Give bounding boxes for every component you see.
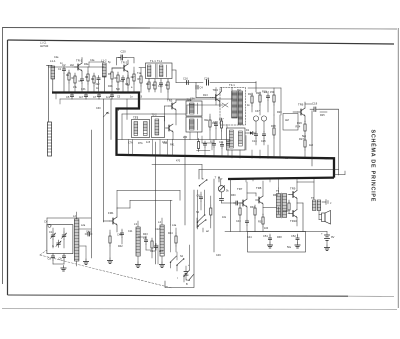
- ground G3: [324, 245, 329, 251]
- capacitor C52: [291, 234, 299, 242]
- resistor R34: [262, 214, 264, 232]
- capacitor C2: [62, 63, 66, 93]
- ground G5: [61, 266, 66, 272]
- transformer T2-2: [152, 117, 165, 138]
- switch S3: [183, 270, 189, 282]
- switch S2: [176, 258, 184, 271]
- scan page bottom edge: [2, 309, 397, 310]
- resistor R9: [140, 68, 142, 93]
- resistor R27: [299, 137, 306, 158]
- svg-text:R42: R42: [118, 245, 123, 248]
- svg-text:T1-2: T1-2: [157, 60, 163, 63]
- svg-text:L4a: L4a: [172, 224, 177, 227]
- scan page left edge: [2, 28, 4, 285]
- wire det link: [245, 115, 280, 157]
- svg-text:R44: R44: [168, 232, 173, 235]
- dashed chassis boundary: [40, 255, 172, 288]
- capacitor C15: [261, 116, 266, 145]
- svg-text:300M: 300M: [325, 157, 331, 160]
- resistor R12: [167, 79, 169, 99]
- svg-text:R12: R12: [165, 84, 170, 87]
- transistor TR-1: [75, 58, 83, 77]
- capacitor C42: [117, 229, 124, 244]
- wire RF collector line: [73, 66, 104, 68]
- capacitor Cb: [59, 254, 66, 265]
- switch S1a: [199, 178, 208, 187]
- variable capacitor C1a: [50, 228, 55, 248]
- svg-text:T3-2: T3-2: [187, 99, 193, 102]
- svg-text:R41: R41: [170, 144, 175, 147]
- svg-text:C2a: C2a: [54, 56, 59, 59]
- transistor Q-AF2: [256, 181, 264, 215]
- svg-text:R38: R38: [277, 236, 282, 239]
- frame left border: [7, 40, 9, 295]
- diode D1: [248, 131, 254, 134]
- resistor R36: [283, 200, 290, 213]
- capacitor C16: [183, 77, 188, 85]
- dashed chassis boundary left: [40, 250, 47, 255]
- battery B1 9V: [321, 232, 335, 246]
- svg-text:R49: R49: [226, 140, 231, 143]
- wire battery box: [165, 190, 194, 288]
- svg-text:AM 520: AM 520: [40, 45, 49, 48]
- switch S1b: [197, 218, 207, 232]
- resistor R33: [254, 205, 256, 232]
- transformer T4: [227, 128, 246, 150]
- svg-text:TR5: TR5: [167, 99, 173, 103]
- wire IF row top: [122, 113, 186, 115]
- variable capacitor C1b: [61, 228, 66, 248]
- capacitor C9: [121, 76, 124, 93]
- svg-text:T1-1: T1-1: [150, 59, 156, 63]
- transformer T5 driver: [263, 188, 287, 218]
- wire switch rail: [158, 225, 177, 264]
- transformer T3: [186, 101, 202, 116]
- resistor R44: [175, 228, 177, 252]
- svg-text:TR9: TR9: [290, 187, 296, 191]
- svg-text:R7A: R7A: [138, 142, 143, 145]
- resistor R4: [93, 73, 95, 93]
- svg-text:TR6: TR6: [298, 103, 304, 107]
- wire audio bottom rail: [225, 231, 327, 233]
- svg-text:C40: C40: [212, 122, 217, 125]
- svg-text:5k6: 5k6: [116, 88, 121, 91]
- transistor TR-3: [211, 88, 222, 108]
- wire top link: [176, 83, 256, 98]
- wire osc top: [117, 200, 172, 225]
- svg-text:L1-1: L1-1: [50, 59, 56, 63]
- transistor TR5b: [166, 124, 174, 140]
- ground G8: [135, 262, 140, 268]
- svg-text:FM1: FM1: [108, 211, 114, 215]
- resistor R43: [151, 238, 153, 258]
- wire mixer vertical: [248, 82, 281, 116]
- capacitor C24: [204, 77, 210, 86]
- box feedback: [248, 232, 306, 253]
- svg-text:C7: C7: [93, 95, 97, 99]
- coil L1-1: [50, 59, 56, 93]
- svg-text:SCHÉMA DE PRINCIPE: SCHÉMA DE PRINCIPE: [370, 130, 378, 203]
- svg-text:C49: C49: [216, 254, 221, 257]
- wire audio mid: [297, 203, 303, 232]
- svg-text:C9: C9: [143, 236, 147, 240]
- svg-text:T: T: [215, 176, 217, 180]
- capacitor C4: [97, 76, 100, 93]
- svg-text:T2-1: T2-1: [133, 117, 139, 120]
- wire osc collector rail: [117, 191, 180, 209]
- wire TR-2 feedback loop: [117, 58, 135, 66]
- wire AGC row: [60, 98, 232, 100]
- svg-text:R13: R13: [203, 94, 208, 97]
- transistor Q-OUT1: [288, 182, 297, 203]
- label row IF bottom: [128, 140, 231, 147]
- frame bottom border: [8, 295, 349, 296]
- ground G7: [107, 258, 112, 264]
- speaker LS: [319, 211, 331, 225]
- resistor R22: [256, 91, 261, 115]
- wire tuning top: [47, 218, 91, 225]
- svg-text:C52: C52: [291, 234, 296, 238]
- svg-text:C4a: C4a: [90, 59, 95, 62]
- svg-text:AM: AM: [285, 119, 289, 122]
- extra hairline wires: [56, 62, 297, 188]
- svg-text:C51: C51: [263, 234, 268, 238]
- svg-text:S: S: [186, 278, 188, 282]
- resistor R11: [154, 79, 156, 92]
- svg-text:C37: C37: [255, 110, 260, 113]
- svg-text:C20: C20: [121, 50, 127, 54]
- wire AF coupling: [247, 193, 256, 196]
- transformer T3-1 dashed: [220, 83, 246, 125]
- wire long vertical A: [90, 130, 92, 258]
- svg-text:TR8: TR8: [256, 186, 262, 190]
- resistor R6: [117, 72, 119, 93]
- wire long vertical B: [102, 99, 104, 222]
- svg-text:C10: C10: [158, 85, 163, 88]
- svg-text:C16: C16: [183, 77, 188, 81]
- node +batt: [188, 264, 190, 267]
- capacitor C43: [143, 236, 148, 250]
- svg-text:R30: R30: [231, 194, 236, 197]
- label block top-left: [40, 42, 142, 92]
- transistor TR-2: [112, 60, 128, 78]
- svg-text:T1a: T1a: [137, 72, 142, 75]
- transistor TR-4 osc: [103, 208, 117, 232]
- svg-text:T2-2: T2-2: [152, 114, 158, 117]
- svg-text:C18: C18: [312, 102, 318, 106]
- svg-text:5k6: 5k6: [302, 135, 307, 138]
- svg-text:L2a: L2a: [81, 224, 86, 227]
- svg-text:R17: R17: [219, 118, 224, 121]
- svg-text:R26: R26: [297, 121, 302, 125]
- capacitor C17: [196, 86, 203, 90]
- svg-text:R25: R25: [320, 114, 325, 117]
- ground G9: [159, 262, 164, 268]
- resistor R46: [210, 196, 212, 228]
- resistor R14: [248, 92, 253, 112]
- svg-text:50u: 50u: [287, 246, 292, 249]
- resistor R21: [197, 139, 199, 152]
- capacitor C38: [212, 140, 215, 157]
- svg-text:R4b: R4b: [108, 85, 113, 88]
- ground G1: [267, 243, 272, 249]
- wire IF row bottom: [117, 139, 230, 141]
- switch S2b contact: [170, 256, 177, 268]
- coil L4: [158, 218, 164, 262]
- resistor R31: [239, 204, 241, 232]
- svg-text:C12: C12: [155, 228, 160, 231]
- svg-text:R20: R20: [277, 111, 282, 114]
- svg-text:R33: R33: [258, 221, 263, 224]
- transformer T6 output: [297, 179, 321, 211]
- transistor Q-AF1: [237, 182, 247, 218]
- svg-text:C44: C44: [219, 141, 224, 144]
- resistor R17: [220, 118, 222, 140]
- svg-text:R34: R34: [273, 194, 278, 197]
- svg-text:C1: C1: [49, 230, 53, 234]
- svg-text:R36: R36: [283, 209, 288, 213]
- svg-text:C41: C41: [86, 230, 91, 234]
- coil L3: [134, 221, 140, 262]
- resistor R15: [273, 88, 275, 115]
- svg-text:R24: R24: [296, 125, 301, 129]
- transistor TR-5: [165, 99, 191, 126]
- svg-text:4n7: 4n7: [79, 95, 84, 99]
- svg-text:4VC: 4VC: [283, 157, 288, 160]
- svg-text:R32: R32: [250, 206, 255, 209]
- svg-text:C33: C33: [162, 141, 167, 144]
- svg-text:1n5: 1n5: [146, 141, 151, 144]
- value labels scatter: [44, 60, 331, 286]
- svg-text:1k8: 1k8: [120, 80, 125, 83]
- svg-text:TR7: TR7: [237, 187, 243, 191]
- capacitor C14: [253, 116, 258, 145]
- resistor R10: [148, 79, 150, 93]
- svg-text:R18: R18: [271, 125, 276, 128]
- resistor R2: [74, 73, 76, 93]
- wire IF-to-bus drops: [129, 140, 210, 156]
- svg-text:T3-1: T3-1: [229, 83, 235, 87]
- ground bus (thick): [52, 93, 334, 178]
- svg-text:FM: FM: [237, 89, 241, 92]
- svg-text:R43: R43: [143, 233, 148, 236]
- capacitor C39: [203, 141, 206, 156]
- svg-text:R19: R19: [262, 91, 267, 94]
- capacitor C44: [150, 244, 158, 254]
- coil L2 osc: [73, 212, 79, 266]
- wire osc links: [79, 229, 91, 259]
- wire RF base line: [49, 66, 74, 68]
- svg-text:C10: C10: [150, 249, 155, 253]
- svg-text:1k2: 1k2: [309, 144, 314, 147]
- capacitor C20: [118, 50, 126, 61]
- box R24: [283, 114, 301, 131]
- capacitor C8: [106, 93, 114, 100]
- svg-text:CV: CV: [44, 221, 48, 224]
- jack J1 earphone: [322, 200, 332, 206]
- svg-text:2k2: 2k2: [70, 64, 75, 67]
- capacitor C51: [263, 234, 272, 242]
- svg-text:TR-1: TR-1: [76, 59, 83, 63]
- svg-text:220: 220: [183, 136, 188, 139]
- potentiometer P volume: [218, 186, 234, 203]
- supply rail (thick top edge of audio section): [228, 178, 334, 179]
- frame top border: [8, 40, 395, 44]
- wire detector out: [152, 165, 339, 180]
- svg-text:R22: R22: [256, 91, 261, 95]
- scan page top edge: [2, 27, 150, 30]
- variable capacitor C1c: [56, 240, 61, 247]
- wire T1 to TR-3: [139, 68, 176, 83]
- svg-text:C3b: C3b: [81, 88, 86, 91]
- capacitor C34: [226, 141, 229, 156]
- svg-text:R14: R14: [248, 92, 253, 96]
- svg-text:100: 100: [264, 227, 269, 230]
- scan page right edge: [397, 28, 399, 308]
- wire antenna input top stub: [47, 65, 53, 122]
- switch S2c contact: [186, 273, 194, 281]
- battery contact B2: [184, 266, 188, 280]
- wire AGC long: [187, 88, 232, 115]
- svg-text:C43: C43: [236, 220, 241, 223]
- svg-text:G: G: [52, 245, 54, 248]
- resistor R1: [68, 70, 70, 93]
- svg-text:9V: 9V: [331, 235, 335, 239]
- svg-text:C7A: C7A: [128, 142, 133, 145]
- svg-text:C44: C44: [247, 236, 252, 239]
- transformer T1: [146, 59, 173, 79]
- svg-text:1n2: 1n2: [106, 95, 111, 99]
- capacitor C18: [310, 102, 319, 112]
- ferrite rod antenna: [48, 122, 52, 156]
- transistor Q-OUT2: [288, 203, 297, 226]
- switch S4 between sections: [197, 205, 206, 229]
- svg-text:470: 470: [176, 160, 181, 163]
- svg-text:C14: C14: [252, 140, 257, 143]
- transformer T2-1: [132, 116, 150, 138]
- wire tuning bottom: [53, 263, 64, 265]
- node TP test point: [215, 176, 223, 183]
- capacitor C45: [245, 219, 248, 232]
- capacitor Ca: [48, 254, 55, 265]
- svg-text:R11: R11: [152, 84, 157, 87]
- svg-text:TR4: TR4: [213, 88, 219, 92]
- capacitor C35: [220, 142, 223, 156]
- svg-text:4k7: 4k7: [131, 76, 136, 79]
- resistor R3: [87, 67, 89, 93]
- svg-text:2k2: 2k2: [96, 83, 101, 86]
- svg-text:R10: R10: [146, 83, 151, 86]
- resistor R26: [297, 121, 306, 139]
- svg-text:C15: C15: [261, 140, 266, 143]
- wire bias vertical: [111, 99, 127, 140]
- wire audio left rails: [214, 179, 231, 253]
- wire audio input: [234, 201, 244, 205]
- wire bus stub right: [334, 171, 345, 175]
- potentiometer P1: [103, 111, 109, 117]
- resistor R41: [109, 230, 111, 258]
- ground G6: [83, 259, 88, 265]
- transformer T3b: [186, 117, 202, 132]
- wire TR6 collector loop: [305, 102, 339, 175]
- capacitor C6: [79, 93, 88, 100]
- resistor R5: [111, 68, 113, 93]
- wire long vertical C: [154, 142, 156, 264]
- wire osc bottom row: [138, 237, 152, 250]
- svg-text:150: 150: [270, 91, 275, 94]
- svg-text:C11: C11: [128, 230, 133, 233]
- tuning gang box CV: [47, 224, 73, 253]
- svg-text:2k7: 2k7: [159, 250, 164, 253]
- wire interstage verticals: [198, 190, 205, 222]
- capacitor C13: [213, 120, 218, 140]
- capacitor C10: [159, 79, 162, 93]
- resistor R16: [209, 114, 211, 140]
- svg-text:P1: P1: [106, 111, 110, 115]
- svg-text:R3a: R3a: [84, 63, 89, 66]
- svg-text:C5: C5: [66, 95, 70, 99]
- resistor R18: [273, 115, 275, 156]
- svg-text:C30: C30: [96, 107, 101, 110]
- capacitor C7: [93, 93, 101, 100]
- transistor TR-6: [293, 103, 305, 123]
- capacitor C08: [197, 192, 203, 210]
- ground G2: [295, 243, 300, 249]
- resistor R7: [127, 75, 129, 93]
- resistor R8: [133, 67, 135, 93]
- svg-text:TR-2: TR-2: [121, 61, 128, 65]
- capacitor C41: [85, 230, 92, 237]
- capacitor C5: [66, 93, 74, 100]
- capacitor C12: [264, 90, 270, 112]
- svg-text:TR10: TR10: [290, 219, 297, 223]
- wire long vertical D: [184, 136, 186, 225]
- coil L1-2: [101, 59, 107, 93]
- capacitor C3: [80, 77, 83, 93]
